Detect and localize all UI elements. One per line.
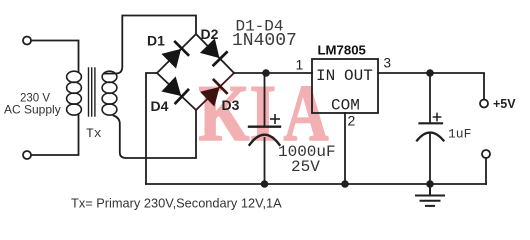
ground bus wire xyxy=(146,183,486,185)
svg-text:LM7805: LM7805 xyxy=(318,43,366,58)
svg-text:D1: D1 xyxy=(147,33,165,49)
svg-text:1N4007: 1N4007 xyxy=(232,31,297,51)
svg-text:+5V: +5V xyxy=(493,97,516,111)
wire: bridge + output to regulator IN xyxy=(234,72,312,74)
capacitor C2 top plate xyxy=(420,122,443,124)
capacitor C1 top plate xyxy=(249,125,280,127)
wire: bottom terminal to primary xyxy=(31,114,78,155)
diode D4 xyxy=(162,77,189,104)
wire: secondary top to bridge top xyxy=(105,16,197,74)
wire: COM pin 2 down to bus xyxy=(344,113,346,184)
wire: top terminal to primary xyxy=(31,41,78,73)
svg-text:I: I xyxy=(250,69,277,158)
junction node: OUT / C2 xyxy=(426,69,434,77)
junction node: COM / bus xyxy=(341,180,349,188)
svg-text:1: 1 xyxy=(296,57,304,73)
watermark KIA xyxy=(199,67,329,158)
C2 plus sign xyxy=(433,113,440,120)
+5V terminal circle xyxy=(480,100,488,108)
C1 plus sign xyxy=(271,115,279,123)
wire: C1 bottom lead xyxy=(264,138,266,184)
junction node: C1 / bus xyxy=(261,180,269,188)
ground symbol xyxy=(416,184,444,206)
junction node: bridge out / C1 xyxy=(262,69,270,77)
transformer Tx secondary coil xyxy=(102,71,117,115)
svg-text:D4: D4 xyxy=(151,98,169,114)
diode D2 xyxy=(201,39,228,66)
diamond side D3 xyxy=(196,73,234,110)
transformer core xyxy=(89,68,95,116)
transformer T1 primary coil xyxy=(67,71,82,115)
svg-text:IN: IN xyxy=(316,67,335,85)
svg-text:25V: 25V xyxy=(291,158,320,176)
diode D1 xyxy=(162,41,189,68)
svg-text:Tx= Primary 230V,Secondary 12V: Tx= Primary 230V,Secondary 12V,1A xyxy=(71,196,282,211)
svg-text:AC Supply: AC Supply xyxy=(4,103,61,117)
svg-text:1uF: 1uF xyxy=(448,127,471,142)
AC terminal top xyxy=(23,37,31,45)
wire: 0V terminal to bus xyxy=(485,158,487,184)
capacitor C2 bottom plate (dome) xyxy=(417,133,444,141)
diode bridge diamond: side D1 xyxy=(157,34,196,73)
diode D3 (under watermark, maroon) xyxy=(201,79,228,106)
svg-text:OUT: OUT xyxy=(344,67,373,85)
0V terminal circle xyxy=(482,150,490,158)
diamond side D2 xyxy=(196,34,234,73)
wire: C1 top lead xyxy=(264,73,266,126)
svg-text:COM: COM xyxy=(331,97,360,115)
svg-text:D2: D2 xyxy=(201,26,219,42)
wire: C2 top lead xyxy=(429,73,431,122)
svg-text:Tx: Tx xyxy=(86,126,102,141)
capacitor C1 bottom plate (dome) xyxy=(250,135,280,145)
svg-text:3: 3 xyxy=(384,56,392,71)
svg-text:D3: D3 xyxy=(222,97,240,113)
regulator U1 LM7805 box xyxy=(312,59,378,113)
diamond side D4 xyxy=(157,73,196,110)
junction node: ground / bus xyxy=(426,180,434,188)
AC terminal bottom xyxy=(23,151,31,159)
wire: left vertex stub down to ground bus xyxy=(146,73,157,184)
wire: C2 bottom lead xyxy=(429,134,431,184)
wire: secondary bottom to bridge bottom xyxy=(114,111,197,159)
svg-text:2: 2 xyxy=(348,113,356,129)
wire: regulator OUT to +5V xyxy=(378,73,484,100)
